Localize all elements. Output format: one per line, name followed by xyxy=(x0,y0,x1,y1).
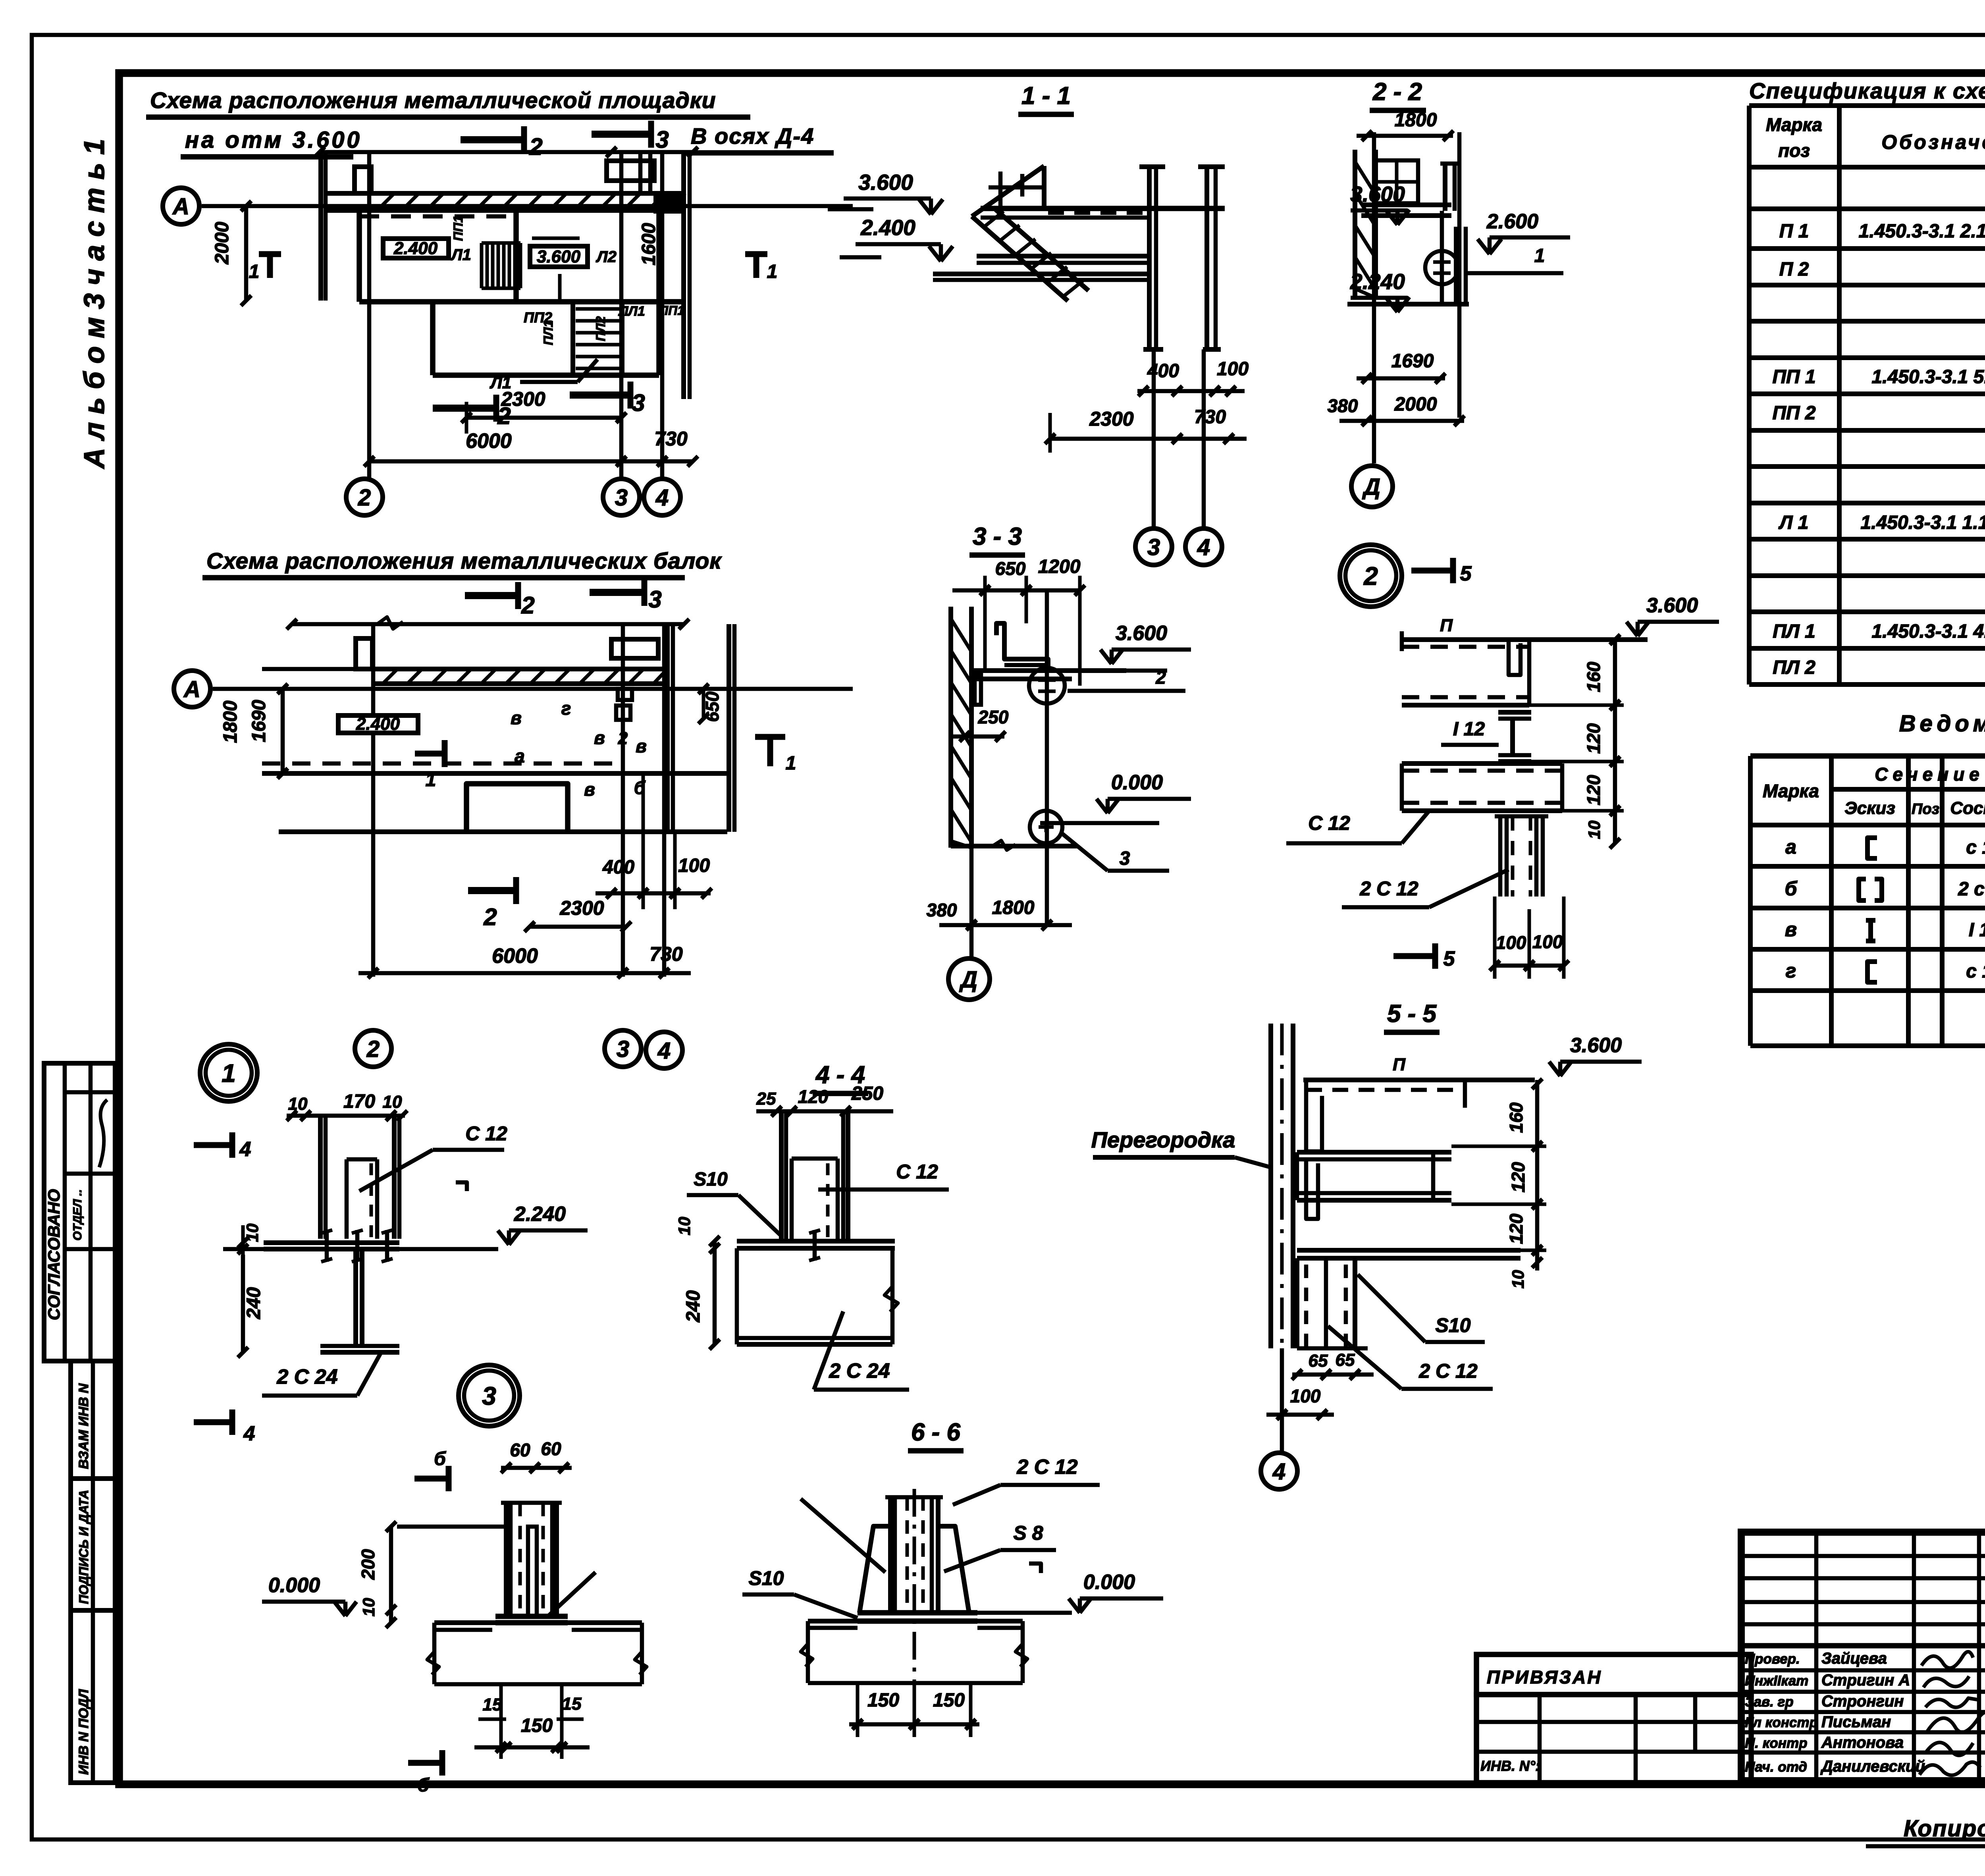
svg-text:3: 3 xyxy=(617,1036,629,1062)
svg-text:1600: 1600 xyxy=(638,223,659,265)
node1 bolts xyxy=(325,1230,329,1262)
plan2 wall band xyxy=(375,667,667,671)
node3 cut b top xyxy=(414,1476,449,1482)
svg-text:3: 3 xyxy=(1120,848,1130,869)
svg-text:Л 1: Л 1 xyxy=(1778,512,1808,533)
svg-text:100: 100 xyxy=(1217,359,1249,380)
svg-text:65: 65 xyxy=(1309,1351,1328,1371)
sec55 bottom dim 65 65 xyxy=(1297,1346,1368,1351)
plan2 cut marks top xyxy=(465,592,518,599)
svg-text:Данилевский: Данилевский xyxy=(1820,1758,1925,1775)
svg-text:S10: S10 xyxy=(694,1169,728,1190)
svg-text:250: 250 xyxy=(851,1083,883,1104)
svg-text:170: 170 xyxy=(343,1091,375,1112)
sec11 platform 3.600 xyxy=(981,206,1225,211)
plan2 small rects right xyxy=(618,689,632,700)
svg-text:в: в xyxy=(636,736,647,756)
svg-text:ПЛ1: ПЛ1 xyxy=(541,320,555,345)
svg-text:2: 2 xyxy=(497,403,511,429)
sec44 beam box xyxy=(735,1248,739,1344)
plan1 axis A xyxy=(163,188,199,224)
svg-text:5: 5 xyxy=(1443,947,1455,970)
svg-text:с 12: с 12 xyxy=(1966,837,1985,858)
svg-text:Схема расположения металлическ: Схема расположения металлической площадк… xyxy=(150,88,716,113)
svg-text:Поз: Поз xyxy=(1912,801,1939,817)
sec55 axis down xyxy=(1280,1348,1284,1453)
svg-text:П 1: П 1 xyxy=(1779,221,1809,242)
svg-text:П: П xyxy=(1440,616,1453,635)
svg-text:6 - 6: 6 - 6 xyxy=(911,1419,961,1446)
svg-text:3: 3 xyxy=(632,389,645,416)
svg-text:2: 2 xyxy=(521,592,534,619)
svg-text:100: 100 xyxy=(1290,1386,1321,1406)
svg-text:ПОДПИСЬ И ДАТА: ПОДПИСЬ И ДАТА xyxy=(77,1490,91,1604)
svg-text:1200: 1200 xyxy=(1038,556,1081,577)
plan1 lower room xyxy=(430,302,436,375)
plan1 cut mark 1 right xyxy=(754,254,759,278)
sec33 node circle 2 xyxy=(1030,811,1062,843)
svg-text:Сечение: Сечение xyxy=(1875,764,1984,785)
plan1 wall hatch band xyxy=(369,191,685,196)
svg-text:60: 60 xyxy=(510,1440,530,1460)
plan1 top right detail xyxy=(607,161,654,181)
node2 I-beam xyxy=(1498,710,1531,715)
svg-text:4: 4 xyxy=(655,485,669,511)
svg-text:2 С 12: 2 С 12 xyxy=(1016,1456,1077,1479)
sec11 axis circles xyxy=(1152,349,1156,528)
svg-text:2.240: 2.240 xyxy=(1350,269,1405,294)
svg-text:2000: 2000 xyxy=(212,222,233,264)
plan2 bottom line xyxy=(279,829,727,834)
svg-text:1800: 1800 xyxy=(1395,110,1437,131)
svg-text:4: 4 xyxy=(657,1038,671,1064)
svg-text:поз: поз xyxy=(1778,140,1810,161)
node1 cut4 top xyxy=(194,1142,232,1148)
svg-text:100: 100 xyxy=(678,855,710,876)
svg-text:Эскиз: Эскиз xyxy=(1844,798,1895,818)
svg-text:2.400: 2.400 xyxy=(393,239,438,258)
svg-text:6000: 6000 xyxy=(466,430,512,453)
sec66 right gusset xyxy=(938,1526,969,1613)
svg-text:с 12: с 12 xyxy=(1966,961,1985,982)
svg-text:730: 730 xyxy=(1194,407,1226,428)
sec22 platform xyxy=(1361,202,1451,207)
svg-text:1: 1 xyxy=(786,753,796,774)
svg-text:0.000: 0.000 xyxy=(1111,771,1163,794)
svg-text:1.450.3-3.1 4.1.1.1.0: 1.450.3-3.1 4.1.1.1.0 xyxy=(1871,621,1985,642)
svg-text:3 - 3: 3 - 3 xyxy=(973,523,1022,550)
svg-text:160: 160 xyxy=(1583,661,1604,692)
sec66 center line xyxy=(913,1489,916,1683)
title block signature grid xyxy=(1741,1554,1985,1558)
svg-text:120: 120 xyxy=(1583,775,1604,805)
svg-text:25: 25 xyxy=(756,1089,776,1109)
svg-text:1800: 1800 xyxy=(220,700,241,743)
svg-text:Обозначение: Обозначение xyxy=(1881,131,1985,153)
svg-text:П 2: П 2 xyxy=(1779,259,1809,280)
svg-text:Стригин А: Стригин А xyxy=(1821,1672,1910,1689)
node1 cut4 bottom xyxy=(194,1419,232,1425)
svg-text:10: 10 xyxy=(288,1094,308,1114)
node1 top plate xyxy=(264,1240,399,1245)
svg-text:15: 15 xyxy=(562,1694,582,1714)
svg-text:10: 10 xyxy=(1585,821,1603,839)
spec table grid xyxy=(1749,103,1985,108)
plan1 cut2 bottom xyxy=(433,405,496,412)
svg-text:3: 3 xyxy=(655,126,669,153)
svg-text:на отм 3.600: на отм 3.600 xyxy=(185,127,362,153)
svg-text:240: 240 xyxy=(243,1287,264,1319)
node3 column xyxy=(504,1503,509,1616)
svg-text:3.600: 3.600 xyxy=(537,247,581,266)
plan1 level box 2.400 xyxy=(383,239,449,258)
svg-text:3.600: 3.600 xyxy=(1570,1034,1622,1057)
svg-text:120: 120 xyxy=(1583,723,1604,754)
svg-text:S10: S10 xyxy=(1436,1314,1471,1336)
svg-text:250: 250 xyxy=(978,707,1009,727)
svg-text:2: 2 xyxy=(618,729,628,748)
svg-text:380: 380 xyxy=(1328,395,1358,416)
node1 bracket symbol xyxy=(456,1182,467,1191)
svg-text:100: 100 xyxy=(1532,931,1563,952)
svg-text:2 с 12: 2 с 12 xyxy=(1958,879,1985,900)
sec44 plate xyxy=(737,1239,895,1244)
svg-text:0.000: 0.000 xyxy=(1083,1571,1135,1594)
node2 beam1 xyxy=(1402,645,1529,649)
sec22 railing mesh xyxy=(1376,160,1418,203)
svg-text:Перегородка: Перегородка xyxy=(1091,1127,1235,1152)
node3 leader diag xyxy=(548,1572,595,1616)
svg-text:120: 120 xyxy=(1508,1162,1528,1192)
plan1 level box 3.600 xyxy=(530,246,588,267)
plan1 arrow leader xyxy=(558,274,562,300)
svg-text:5: 5 xyxy=(1460,562,1472,585)
node2 dim chain right xyxy=(1613,640,1617,843)
sec66 floor slab xyxy=(808,1619,1023,1623)
plan1 cut3 bottom xyxy=(570,391,630,399)
svg-text:Марка: Марка xyxy=(1766,114,1822,135)
plan2 vertical axes xyxy=(371,624,376,977)
svg-text:150: 150 xyxy=(867,1690,899,1711)
svg-text:2: 2 xyxy=(358,485,371,511)
svg-text:1: 1 xyxy=(426,769,436,791)
svg-text:3: 3 xyxy=(615,485,628,511)
sec22 mid vertical xyxy=(1440,211,1444,304)
sec33 axis D xyxy=(969,848,974,958)
sec22 node circle small xyxy=(1425,251,1459,284)
plan2 dashed beam line xyxy=(262,762,614,766)
plan1 axis 4 line xyxy=(660,152,665,479)
svg-text:2.400: 2.400 xyxy=(356,714,400,734)
sec22 bottom line xyxy=(1347,302,1469,307)
signature squiggle xyxy=(99,1100,107,1167)
plan1 right wall xyxy=(681,152,686,399)
svg-text:4: 4 xyxy=(1197,534,1210,560)
left stamp: inv n podl xyxy=(71,1610,115,1783)
svg-text:730: 730 xyxy=(649,943,683,965)
svg-text:2: 2 xyxy=(1363,562,1378,590)
svg-text:1: 1 xyxy=(222,1059,236,1087)
svg-text:С 12: С 12 xyxy=(896,1161,938,1183)
svg-text:240: 240 xyxy=(683,1290,704,1323)
svg-text:380: 380 xyxy=(927,900,957,920)
svg-text:1: 1 xyxy=(249,261,260,282)
svg-text:3.600: 3.600 xyxy=(858,170,913,195)
sec55 top beam xyxy=(1303,1078,1535,1082)
svg-text:ПРИВЯЗАН: ПРИВЯЗАН xyxy=(1487,1667,1602,1687)
sec33 wall hatched xyxy=(948,607,953,848)
plan1 axis circles bottom xyxy=(346,479,383,515)
svg-text:Стронгин: Стронгин xyxy=(1821,1693,1904,1710)
svg-text:А л ь б о м 3 ч а с т ь 1: А л ь б о м 3 ч а с т ь 1 xyxy=(79,139,110,469)
svg-text:в: в xyxy=(1785,918,1797,941)
svg-text:ПЛ 1: ПЛ 1 xyxy=(1773,621,1815,642)
svg-text:2 С 24: 2 С 24 xyxy=(829,1359,890,1382)
cut marker 3 top xyxy=(592,131,651,138)
svg-text:S10: S10 xyxy=(749,1567,784,1589)
svg-text:0.000: 0.000 xyxy=(268,1574,320,1597)
svg-text:3.600: 3.600 xyxy=(1116,622,1167,645)
plan1 axis 3 line xyxy=(619,152,624,479)
plan2 opening xyxy=(466,784,568,832)
svg-text:1.450.3-3.1 2.1.1.0.0-11: 1.450.3-3.1 2.1.1.0.0-11 xyxy=(1859,221,1985,242)
svg-text:В осях Д-4: В осях Д-4 xyxy=(691,123,814,148)
svg-text:ПЛ 2: ПЛ 2 xyxy=(1773,657,1815,678)
sec11 stair rail triangle xyxy=(972,166,1044,216)
svg-text:100: 100 xyxy=(1496,932,1526,953)
sec33 platform line xyxy=(971,668,1126,673)
svg-text:С 12: С 12 xyxy=(465,1122,507,1145)
sec55 lower column xyxy=(1295,1258,1299,1348)
svg-text:б: б xyxy=(417,1775,430,1796)
plan2 top dim line xyxy=(292,622,684,627)
node3 circle xyxy=(459,1365,520,1426)
svg-text:П: П xyxy=(1393,1055,1406,1074)
svg-text:10: 10 xyxy=(1509,1270,1527,1289)
sec11 lower chord xyxy=(933,272,1151,276)
node2 cut5 bottom xyxy=(1393,953,1435,959)
sec33 bottom slab xyxy=(951,844,1077,848)
sec55 beam2 xyxy=(1297,1150,1451,1155)
plan2 right wall details xyxy=(665,624,670,832)
svg-text:Нач. отд: Нач. отд xyxy=(1745,1759,1807,1775)
signatures squiggles xyxy=(1921,1652,1973,1668)
svg-text:в: в xyxy=(594,727,605,748)
svg-text:150: 150 xyxy=(521,1715,553,1736)
plan2 left ext line xyxy=(262,667,375,671)
svg-text:I 12: I 12 xyxy=(1969,920,1985,941)
svg-text:60: 60 xyxy=(541,1438,561,1459)
sec22 axis verticals xyxy=(1372,132,1376,463)
sec33 axis vertical xyxy=(1045,590,1049,925)
cut marker 2 top xyxy=(461,136,524,143)
plan2 cut1 right xyxy=(755,734,785,740)
node1 channel verticals xyxy=(318,1114,323,1239)
svg-text:Письман: Письман xyxy=(1821,1713,1891,1731)
svg-text:а: а xyxy=(1785,836,1796,858)
svg-text:ПП 2: ПП 2 xyxy=(1772,403,1815,424)
sec66 left gusset xyxy=(860,1526,890,1613)
sec66 long leader xyxy=(801,1499,885,1572)
plan1 ladder L1 xyxy=(480,243,484,288)
node3 dim 200 10 xyxy=(397,1525,506,1529)
svg-text:1.450.3-3.1 5.1.0.1.0: 1.450.3-3.1 5.1.0.1.0 xyxy=(1871,366,1985,388)
svg-text:3: 3 xyxy=(648,586,661,613)
sec22 right post upper xyxy=(1443,164,1447,211)
svg-text:в: в xyxy=(511,708,522,728)
plan1 axis 2 line xyxy=(367,152,372,479)
svg-text:г: г xyxy=(1786,960,1796,982)
svg-text:I 12: I 12 xyxy=(1453,719,1485,740)
svg-text:1.450.3-3.1 1.1.1.00-03: 1.450.3-3.1 1.1.1.00-03 xyxy=(1860,512,1985,533)
sec33 plate under xyxy=(977,677,1072,681)
svg-text:150: 150 xyxy=(933,1690,965,1711)
sec44 column xyxy=(779,1111,784,1241)
svg-text:120: 120 xyxy=(1506,1213,1526,1244)
svg-text:2 - 2: 2 - 2 xyxy=(1372,78,1422,106)
plan2 axis A xyxy=(174,671,210,707)
svg-text:ОТДЕЛ ..: ОТДЕЛ .. xyxy=(71,1189,84,1240)
sec66 base plate xyxy=(858,1610,977,1616)
svg-text:ПП1: ПП1 xyxy=(451,216,465,241)
svg-text:1690: 1690 xyxy=(1391,351,1434,372)
sec22 wall hatched xyxy=(1353,150,1357,298)
svg-text:2 С 12: 2 С 12 xyxy=(1359,877,1418,900)
left stamp: soglasovano block xyxy=(44,1063,115,1361)
sec55 dim chain right xyxy=(1535,1080,1540,1271)
svg-text:2000: 2000 xyxy=(1394,394,1437,415)
svg-text:6000: 6000 xyxy=(492,945,538,968)
sec55 partition wall xyxy=(1268,1024,1273,1348)
svg-text:ВЗАМ ИНВ N: ВЗАМ ИНВ N xyxy=(76,1383,91,1469)
svg-text:ПП1: ПП1 xyxy=(659,303,684,318)
svg-text:Зайцева: Зайцева xyxy=(1821,1650,1887,1667)
svg-text:Антонова: Антонова xyxy=(1821,1734,1904,1751)
svg-text:1: 1 xyxy=(1534,245,1545,266)
plan1 left wall edge xyxy=(318,152,323,301)
node2 circle xyxy=(1340,545,1402,607)
plan1 cut mark 1 left xyxy=(267,254,273,278)
sec44 inner box xyxy=(790,1159,794,1241)
node3 floor slab xyxy=(434,1620,642,1625)
plan2 cut2 bottom xyxy=(468,887,516,894)
plan2 pilaster xyxy=(356,638,372,669)
privyazan block xyxy=(1476,1654,1751,1695)
svg-text:2 С 24: 2 С 24 xyxy=(276,1365,337,1388)
svg-text:Ведомость: Ведомость xyxy=(1899,711,1985,737)
svg-text:Копировал Годлевская: Копировал Годлевская xyxy=(1904,1816,1985,1841)
svg-text:ИНВ. N°:: ИНВ. N°: xyxy=(1480,1758,1540,1774)
svg-text:г: г xyxy=(561,698,571,719)
svg-text:5 - 5: 5 - 5 xyxy=(1387,1000,1437,1028)
svg-text:Схема расположения металличе: Схема расположения металлических балок xyxy=(206,548,722,574)
vedomost grid xyxy=(1750,753,1985,759)
svg-text:2: 2 xyxy=(366,1036,380,1062)
svg-text:120: 120 xyxy=(798,1086,829,1107)
svg-text:ИНВ N ПОДЛ: ИНВ N ПОДЛ xyxy=(76,1689,91,1775)
plan2 level box 2.400 xyxy=(338,715,418,733)
node circle 1 xyxy=(200,1044,257,1101)
svg-text:ПП 1: ПП 1 xyxy=(1772,366,1815,388)
svg-text:Л1: Л1 xyxy=(450,246,471,264)
svg-text:Состав: Состав xyxy=(1950,798,1985,818)
svg-text:2.240: 2.240 xyxy=(514,1203,566,1226)
left stamp: vzam inv xyxy=(71,1361,115,1479)
svg-text:а: а xyxy=(515,746,525,766)
svg-text:1 - 1: 1 - 1 xyxy=(1021,82,1071,110)
svg-text:2 С 12: 2 С 12 xyxy=(1418,1360,1478,1382)
svg-text:Спецификация к схеме располож: Спецификация к схеме расположения металл… xyxy=(1749,78,1985,103)
sec55 beam3 lines xyxy=(1297,1248,1521,1253)
svg-text:730: 730 xyxy=(654,428,688,450)
svg-text:10: 10 xyxy=(383,1092,402,1112)
svg-text:650: 650 xyxy=(995,558,1026,579)
svg-text:1: 1 xyxy=(767,261,778,282)
sec33 node circle xyxy=(1029,668,1065,704)
svg-text:3: 3 xyxy=(1147,534,1160,560)
svg-text:Марка: Марка xyxy=(1763,781,1819,801)
sec11 stair ladder xyxy=(972,216,1068,301)
svg-text:С 12: С 12 xyxy=(1308,812,1350,834)
svg-text:4: 4 xyxy=(239,1138,251,1161)
plan1 stair treads lower xyxy=(570,302,575,375)
node3 cut b bottom xyxy=(408,1760,442,1766)
sec11 posts xyxy=(1147,167,1152,349)
sec33 leader 3 xyxy=(1062,834,1108,871)
node1 inner beam xyxy=(345,1159,349,1239)
sec11 platform 2.400 xyxy=(977,254,1151,258)
plan2 cut1 left xyxy=(415,751,445,757)
sec66 column xyxy=(888,1497,893,1613)
node2 beam2 xyxy=(1402,761,1562,766)
svg-text:Д: Д xyxy=(1362,474,1380,500)
svg-text:2.600: 2.600 xyxy=(1486,210,1538,233)
svg-text:А: А xyxy=(172,194,189,220)
sec33 beam profile top xyxy=(996,623,1048,671)
svg-text:3.600: 3.600 xyxy=(1646,594,1698,617)
svg-text:Гл констр: Гл констр xyxy=(1745,1715,1818,1730)
svg-text:S 8: S 8 xyxy=(1013,1522,1043,1544)
svg-text:3: 3 xyxy=(482,1382,496,1410)
plan1 top dim line xyxy=(320,150,693,154)
svg-text:Л2: Л2 xyxy=(595,248,617,266)
svg-text:ИнжIIкат: ИнжIIкат xyxy=(1745,1673,1808,1689)
node2 cut5 top xyxy=(1411,568,1453,574)
svg-text:Н. контр: Н. контр xyxy=(1745,1735,1807,1751)
title block outer xyxy=(1741,1532,1985,1781)
node3 base plate xyxy=(495,1614,568,1619)
svg-text:2300: 2300 xyxy=(1089,408,1133,430)
svg-text:2: 2 xyxy=(529,133,542,160)
svg-text:1690: 1690 xyxy=(249,700,270,742)
plan2 axis circles xyxy=(355,1030,391,1067)
svg-text:4: 4 xyxy=(243,1422,255,1445)
svg-text:2: 2 xyxy=(483,904,497,930)
svg-text:б: б xyxy=(434,1448,446,1469)
svg-text:200: 200 xyxy=(358,1549,378,1580)
node1 I beam xyxy=(353,1249,358,1346)
svg-text:10: 10 xyxy=(359,1598,378,1617)
svg-text:2: 2 xyxy=(1155,667,1166,688)
sec44 bolt xyxy=(813,1230,817,1261)
svg-text:65: 65 xyxy=(1336,1350,1355,1370)
svg-text:А: А xyxy=(183,677,200,702)
svg-text:10: 10 xyxy=(675,1217,694,1236)
left stamp: podpis i data xyxy=(71,1479,115,1610)
svg-text:1800: 1800 xyxy=(992,897,1035,918)
svg-text:400: 400 xyxy=(602,857,634,878)
svg-text:в: в xyxy=(584,779,595,800)
